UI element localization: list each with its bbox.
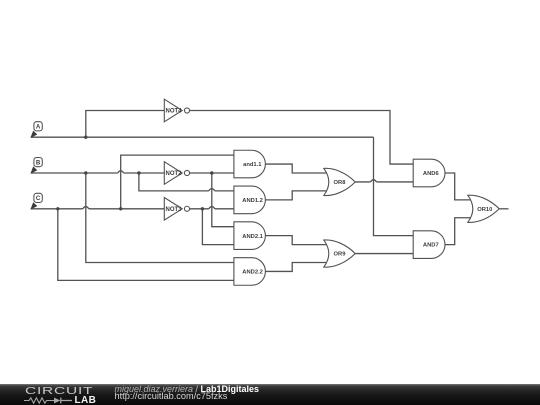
wire and1.1 output to OR8 top input [265,164,328,173]
wire OR10 output [499,208,508,210]
wire NOT3 output to AND1.2 bottom input (hop at x=211.8) [190,207,234,209]
svg-text:NOT3: NOT3 [165,207,182,213]
svg-text:and1.1: and1.1 [243,162,262,168]
svg-text:AND2.2: AND2.2 [242,270,263,276]
junction on wire B at riser to AND2.2 [84,171,87,174]
junction on NOT3 output at riser to AND2.1 [201,207,204,210]
input flag C [30,193,42,209]
and gate AND2.2 [234,258,266,286]
wire NOT2 output to and1.1 bottom input [190,172,234,174]
wire AND7 output to OR10 bottom input [445,218,473,245]
or gate OR8 [324,168,355,195]
wire A [31,136,374,138]
svg-text:OR8: OR8 [334,180,347,186]
and gate AND7 [413,231,445,259]
junction on wire A at riser to NOT4 [84,136,87,139]
svg-text:B: B [36,159,41,166]
inverter NOT3 [164,198,189,221]
wire B riser to AND1.2 top input (hop at x=211.8) [139,173,234,191]
and gate and1.1 [234,150,266,178]
svg-text:A: A [36,124,41,131]
wire B (with hop at x=120.7) [31,171,165,173]
junction on wire C at riser to and1.1 [119,207,122,210]
junction on wire B at riser to AND1.2 [137,171,140,174]
CircuitLab logo wordmark CIRCUIT [25,386,93,397]
wire AND6 output to OR10 top input [445,173,473,200]
svg-text:AND7: AND7 [423,243,439,249]
wire AND2.2 output to OR9 bottom input [265,263,328,272]
wire B riser to AND2.2 top input [86,173,234,263]
or gate OR10 [468,195,499,222]
footer bar [0,384,540,405]
wire NOT4 output to AND6 top input [190,111,414,165]
wire AND1.2 output to OR8 bottom input [265,191,328,200]
wire A riser to NOT4 [86,111,165,138]
input flag A [30,122,42,138]
wire OR9 output to AND7 bottom input [355,253,413,255]
svg-text:NOT4: NOT4 [165,109,182,115]
svg-text:OR9: OR9 [334,252,347,258]
svg-text:AND1.2: AND1.2 [242,198,263,204]
wire C (with hop at x=85.8) [31,207,165,209]
or gate OR9 [324,240,355,267]
inverter NOT4 [164,99,189,122]
input flag B [30,158,42,174]
and gate AND1.2 [234,186,266,214]
svg-text:NOT2: NOT2 [165,171,182,177]
svg-text:OR10: OR10 [477,207,492,213]
CircuitLab logo resistor-diode glyph [22,395,82,405]
and gate AND6 [413,159,445,187]
wire OR8 output to AND6 bottom input (hop at x=373.5) [355,180,413,182]
footer url line [115,391,228,401]
and gate AND2.1 [234,222,266,250]
wire C riser to AND2.2 bottom input [58,209,234,281]
wire C riser to and1.1 top input [121,155,234,209]
wire AND2.1 output to OR9 top input [265,236,328,245]
svg-text:AND2.1: AND2.1 [242,234,263,240]
svg-text:C: C [36,195,41,202]
CircuitLab logo wordmark LAB [75,395,97,405]
junction on NOT2 output at riser to AND2.1 [210,171,213,174]
wire NOT3 output riser to AND2.1 bottom input [202,209,234,245]
wire NOT2 output riser to AND2.1 top input [212,173,234,227]
svg-text:AND6: AND6 [423,171,440,177]
wire A riser to AND7 top input [374,137,414,235]
footer title line [115,384,260,394]
junction on wire C at riser to AND2.2 [56,207,59,210]
inverter NOT2 [164,162,189,185]
